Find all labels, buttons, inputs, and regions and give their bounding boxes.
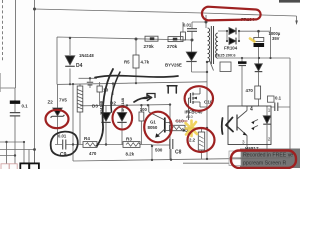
red rounded rect top xyxy=(202,7,261,21)
wire gate resistor row xyxy=(185,128,207,159)
node rect in top xyxy=(226,30,228,32)
svg-text:ppcream Screen R: ppcream Screen R xyxy=(243,161,287,167)
node D4 top xyxy=(69,37,71,39)
diode D3 xyxy=(117,113,126,122)
left edge artifact xyxy=(0,73,2,92)
resistor 100 xyxy=(139,112,144,121)
wire primary drain line xyxy=(206,62,208,159)
pen pi symbol xyxy=(167,86,177,93)
wire led column xyxy=(266,106,268,146)
node primary bottom xyxy=(206,61,208,63)
diode D2 xyxy=(101,113,110,122)
connector small box xyxy=(268,96,275,102)
svg-text:7V5: 7V5 xyxy=(59,98,67,103)
node rail84 b xyxy=(89,77,91,79)
svg-text:Recorded in FREE ve: Recorded in FREE ve xyxy=(243,153,293,159)
resistor 470 feedback xyxy=(255,86,261,99)
svg-text:0.1: 0.1 xyxy=(275,96,282,101)
svg-text:Z2: Z2 xyxy=(48,100,54,105)
node snubber xyxy=(205,21,208,24)
wire feedback row y144 xyxy=(55,144,152,146)
wire dashed mains left xyxy=(2,0,4,62)
transformer aux box xyxy=(220,62,231,72)
resistor R2 510 xyxy=(170,125,186,130)
wire group xyxy=(0,0,297,164)
highlight near cap xyxy=(250,39,255,42)
wire secondary gnd rail xyxy=(218,57,290,59)
watermark group xyxy=(229,149,300,169)
opto phototransistor xyxy=(236,115,238,131)
node fb row b xyxy=(105,143,107,145)
wire rail mid (gnd primary) xyxy=(57,82,207,85)
node gate xyxy=(206,127,208,129)
wire left column cap 0.1 xyxy=(14,88,16,164)
connector left black a xyxy=(20,163,29,170)
strike through 510 xyxy=(175,120,188,122)
wire D3 branch xyxy=(121,105,123,144)
wire aux box branch xyxy=(99,82,101,106)
zener Z2 xyxy=(53,108,62,116)
red circle 2.2 xyxy=(188,128,215,152)
red circle G1 xyxy=(144,112,172,143)
node gnd b xyxy=(258,57,260,59)
node fb row c xyxy=(151,145,153,147)
node rect out top xyxy=(238,30,240,32)
svg-text:100: 100 xyxy=(140,107,148,112)
node base rail a xyxy=(126,104,128,106)
diode FR104 lower xyxy=(229,38,236,45)
capacitor 0.1 left top plate xyxy=(10,101,20,104)
diode D4 1N4148 xyxy=(65,56,75,65)
wire vertical bus B xyxy=(34,0,36,163)
capacitor opto supply xyxy=(238,61,247,64)
svg-text:0.01: 0.01 xyxy=(183,23,192,28)
resistor R4 470 xyxy=(83,142,97,148)
svg-text:8.2k: 8.2k xyxy=(126,151,135,156)
mosfet IRFBC40 xyxy=(190,93,192,103)
svg-text:4.7k: 4.7k xyxy=(141,60,150,65)
wire opto pin3 drop xyxy=(247,145,267,159)
wire bottom rail xyxy=(73,84,290,163)
red circle C10 xyxy=(185,86,213,111)
capacitor 1000u 35V xyxy=(254,38,264,42)
label group xyxy=(22,17,282,158)
svg-text:0.01: 0.01 xyxy=(58,134,67,139)
resistor 10 xyxy=(97,86,102,92)
svg-text:2.2: 2.2 xyxy=(189,138,196,143)
resistor 270k first xyxy=(145,36,158,41)
svg-text:0.1: 0.1 xyxy=(22,104,29,109)
node top-left xyxy=(33,8,36,11)
red rect watermark xyxy=(231,151,296,169)
watermark grey box xyxy=(240,149,300,169)
wire base rail xyxy=(80,105,170,106)
wire zener Z2 column xyxy=(57,84,59,145)
connector left pink a xyxy=(1,164,9,170)
svg-text:R5: R5 xyxy=(124,60,130,65)
node collector top xyxy=(169,103,171,105)
wire output plus rail xyxy=(239,27,271,58)
svg-text:C8: C8 xyxy=(175,150,182,156)
svg-text:D3: D3 xyxy=(92,104,98,109)
resistor 270k second xyxy=(168,37,183,42)
pen pulse sketch xyxy=(142,94,155,99)
node gnd c xyxy=(269,57,271,59)
wire top rail xyxy=(35,9,297,21)
svg-text:R3: R3 xyxy=(126,137,132,142)
optocoupler H5817 box xyxy=(228,106,271,145)
arrow top right xyxy=(295,21,298,26)
pen blob around C9 xyxy=(51,132,78,156)
svg-text:1N4148: 1N4148 xyxy=(120,97,125,112)
pen stroke down long xyxy=(97,69,113,146)
node rail84 c xyxy=(112,82,114,84)
svg-text:1: 1 xyxy=(268,108,271,113)
diode BYV26E xyxy=(186,52,196,61)
pen mark right angle xyxy=(226,118,233,132)
red circle Z2 xyxy=(46,110,69,128)
resistor R5 4.7k xyxy=(133,55,139,68)
pen annotation group xyxy=(51,69,233,156)
svg-text:270k: 270k xyxy=(167,44,178,49)
wire D2 branch xyxy=(106,84,113,145)
resistor R3 8.2k xyxy=(123,142,140,148)
wire left box edge xyxy=(0,0,16,88)
node rect in bot xyxy=(226,40,228,42)
capacitor snubber 0.01 xyxy=(187,29,197,32)
node clamp xyxy=(206,71,208,73)
node bottom c xyxy=(206,158,208,160)
red annotation group xyxy=(46,7,261,152)
svg-text:3: 3 xyxy=(242,140,245,145)
connector left pink b xyxy=(9,164,17,170)
svg-text:EE25 200:6: EE25 200:6 xyxy=(215,53,236,58)
node left a xyxy=(5,141,7,143)
svg-text:A10: A10 xyxy=(186,115,193,119)
aux winding element xyxy=(77,86,83,112)
watermark button a xyxy=(229,151,241,158)
wire feedback sub-box xyxy=(79,78,98,88)
node gnd a xyxy=(241,57,243,59)
svg-text:FR104: FR104 xyxy=(224,46,238,51)
wire D4 branch xyxy=(69,38,71,84)
svg-text:470: 470 xyxy=(89,151,97,156)
node base rail b xyxy=(140,104,142,106)
wire left low rows xyxy=(0,142,35,164)
svg-text:470: 470 xyxy=(246,88,254,93)
pen arrow xyxy=(134,97,152,102)
svg-text:8050: 8050 xyxy=(148,125,158,130)
wire clamp diode branch xyxy=(192,40,208,72)
svg-text:D4: D4 xyxy=(76,63,83,69)
wire zener feedback branch xyxy=(242,58,259,106)
transistor G1 8050 xyxy=(164,118,166,133)
wire G1 collector column xyxy=(169,105,171,160)
node rail84 a xyxy=(69,83,71,85)
wire snubber resistor branch xyxy=(182,22,184,40)
component group xyxy=(1,21,298,170)
node fb row a xyxy=(72,143,74,145)
svg-text:35V: 35V xyxy=(272,36,280,41)
node base rail c xyxy=(147,104,149,106)
transformer terminal diagonal xyxy=(210,61,214,71)
highlight R2 scribble xyxy=(186,121,198,137)
node rail84 e xyxy=(72,83,74,85)
node R5 top xyxy=(135,38,138,41)
capacitor C9 xyxy=(63,140,66,150)
zener feedback xyxy=(255,64,263,71)
transformer core xyxy=(211,26,213,64)
svg-text:2: 2 xyxy=(268,137,271,142)
svg-text:BYV26E: BYV26E xyxy=(165,63,182,68)
red circle D3 xyxy=(113,107,133,130)
svg-text:270k: 270k xyxy=(144,44,155,49)
resistor snubber xyxy=(181,32,186,40)
capacitor 0.1 left xyxy=(10,113,20,116)
diode FR104 upper xyxy=(229,28,236,35)
svg-text:500: 500 xyxy=(155,148,163,153)
grey top bar xyxy=(279,0,300,3)
opto light arrows xyxy=(252,120,259,129)
wire 0.1 output cap xyxy=(271,106,290,108)
node left b xyxy=(23,141,25,143)
wire snubber top node xyxy=(192,15,206,40)
svg-text:4: 4 xyxy=(250,107,253,113)
node left c xyxy=(33,148,36,151)
node rail84 d xyxy=(135,82,137,84)
transformer primary winding xyxy=(208,28,210,62)
capacitor small feedback xyxy=(87,82,93,85)
transformer secondary winding xyxy=(216,33,218,58)
wire R5 branch xyxy=(135,39,137,83)
node rect out bot xyxy=(238,40,240,42)
wire 100R branch xyxy=(140,105,142,144)
opto led xyxy=(263,116,271,124)
svg-text:1N4148: 1N4148 xyxy=(79,53,94,58)
wire opto supply branch xyxy=(241,58,243,106)
node cap plus xyxy=(257,30,260,33)
capacitor 0.1 output xyxy=(275,103,278,112)
wire right rail xyxy=(289,58,291,158)
pen mark right vertical xyxy=(221,118,224,134)
wire aux coil branch xyxy=(79,84,81,144)
svg-text:R4: R4 xyxy=(84,136,90,141)
connector left black b xyxy=(29,163,39,170)
watermark button b xyxy=(229,159,241,166)
capacitor C8 xyxy=(170,139,173,149)
svg-text:G1: G1 xyxy=(150,120,156,125)
node bottom b xyxy=(170,159,172,161)
wire mid-top rail xyxy=(57,37,192,84)
node left d xyxy=(14,154,16,156)
node snubber cap xyxy=(191,39,194,42)
wire C8 node xyxy=(152,145,171,160)
node emitter xyxy=(169,129,171,131)
node bottom a xyxy=(151,159,153,161)
yellow highlight group xyxy=(186,39,255,137)
node collector xyxy=(169,121,171,123)
resistor 2.2 xyxy=(198,132,204,150)
pen stroke down short xyxy=(111,72,120,112)
wire secondary to rectifier xyxy=(218,31,239,41)
pen swoosh horizontal xyxy=(95,76,178,78)
